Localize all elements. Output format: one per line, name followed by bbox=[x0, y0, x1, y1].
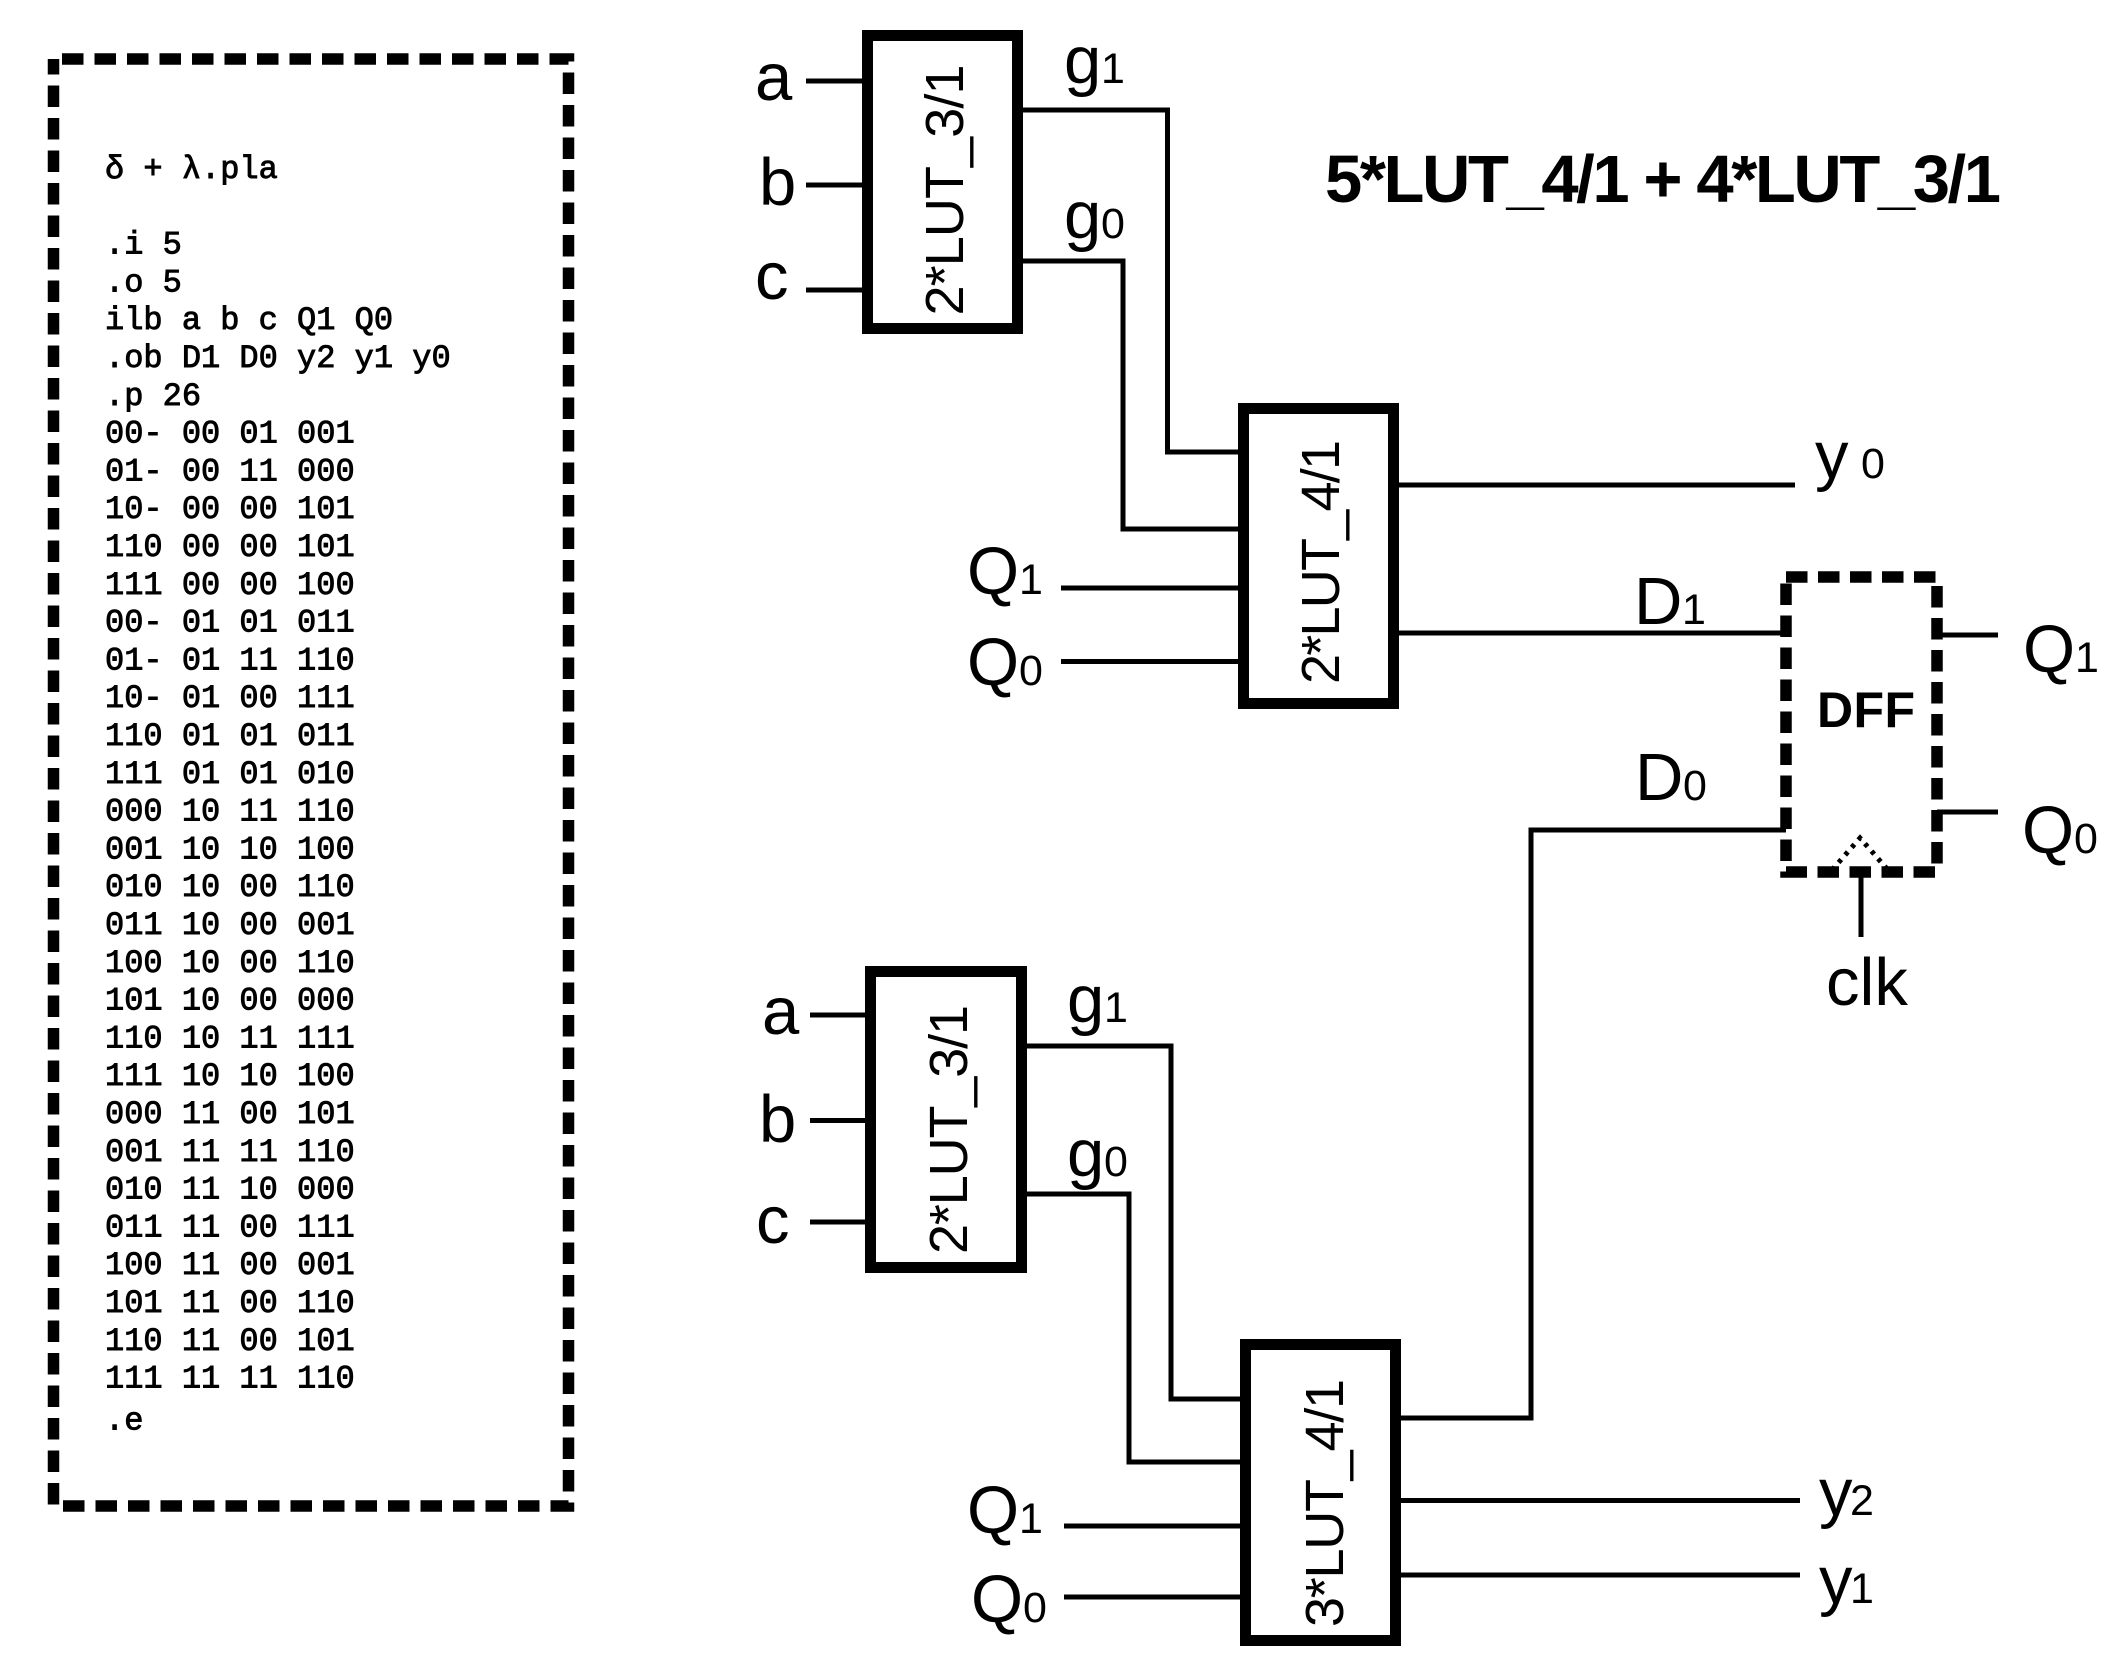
svg-text:001 10 10 100: 001 10 10 100 bbox=[105, 831, 355, 868]
svg-text:ilb a b c Q1 Q0: ilb a b c Q1 Q0 bbox=[105, 302, 393, 339]
svg-text:3*LUT_4/1: 3*LUT_4/1 bbox=[1295, 1379, 1355, 1627]
svg-text:011 11 00 111: 011 11 00 111 bbox=[105, 1209, 355, 1246]
svg-text:clk: clk bbox=[1826, 945, 1908, 1020]
svg-text:2*LUT_3/1: 2*LUT_3/1 bbox=[915, 65, 975, 316]
svg-text:111 11 11 110: 111 11 11 110 bbox=[105, 1361, 355, 1398]
svg-text:10- 00 00 101: 10- 00 00 101 bbox=[105, 491, 355, 528]
svg-text:111 00 00 100: 111 00 00 100 bbox=[105, 567, 355, 604]
svg-text:.ob D1 D0 y2 y1 y0: .ob D1 D0 y2 y1 y0 bbox=[105, 340, 451, 377]
svg-text:.o 5: .o 5 bbox=[105, 264, 182, 301]
svg-text:110 10 11 111: 110 10 11 111 bbox=[105, 1020, 355, 1057]
svg-text:111 01 01 010: 111 01 01 010 bbox=[105, 756, 355, 793]
svg-text:a: a bbox=[762, 974, 800, 1049]
svg-text:DFF: DFF bbox=[1817, 682, 1915, 738]
svg-text:01- 01 11 110: 01- 01 11 110 bbox=[105, 642, 355, 679]
svg-text:101 11 00 110: 101 11 00 110 bbox=[105, 1285, 355, 1322]
svg-text:111 10 10 100: 111 10 10 100 bbox=[105, 1058, 355, 1095]
svg-text:2*LUT_3/1: 2*LUT_3/1 bbox=[919, 1005, 979, 1254]
svg-text:010 10 00 110: 010 10 00 110 bbox=[105, 869, 355, 906]
svg-text:000 10 11 110: 000 10 11 110 bbox=[105, 794, 355, 831]
svg-text:000 11 00 101: 000 11 00 101 bbox=[105, 1096, 355, 1133]
svg-text:.p 26: .p 26 bbox=[105, 378, 201, 415]
svg-text:c: c bbox=[755, 239, 789, 314]
svg-text:100 11 00 001: 100 11 00 001 bbox=[105, 1247, 355, 1284]
svg-text:a: a bbox=[755, 40, 793, 115]
svg-text:δ + λ.pla: δ + λ.pla bbox=[105, 151, 278, 188]
svg-text:001 11 11 110: 001 11 11 110 bbox=[105, 1134, 355, 1171]
svg-text:b: b bbox=[759, 1082, 796, 1157]
svg-text:011 10 00 001: 011 10 00 001 bbox=[105, 907, 355, 944]
svg-text:010 11 10 000: 010 11 10 000 bbox=[105, 1172, 355, 1209]
svg-text:2*LUT_4/1: 2*LUT_4/1 bbox=[1291, 440, 1351, 684]
svg-text:01- 00 11 000: 01- 00 11 000 bbox=[105, 453, 355, 490]
svg-text:00- 01 01 011: 00- 01 01 011 bbox=[105, 605, 355, 642]
svg-text:10- 01 00 111: 10- 01 00 111 bbox=[105, 680, 355, 717]
svg-text:110 11 00 101: 110 11 00 101 bbox=[105, 1323, 355, 1360]
svg-text:100 10 00 110: 100 10 00 110 bbox=[105, 945, 355, 982]
svg-text:b: b bbox=[759, 145, 796, 220]
svg-text:101 10 00 000: 101 10 00 000 bbox=[105, 983, 355, 1020]
svg-text:110 00 00 101: 110 00 00 101 bbox=[105, 529, 355, 566]
svg-text:c: c bbox=[756, 1183, 790, 1258]
svg-text:5*LUT_4/1 + 4*LUT_3/1: 5*LUT_4/1 + 4*LUT_3/1 bbox=[1325, 142, 2001, 217]
svg-text:00- 00 01 001: 00- 00 01 001 bbox=[105, 416, 355, 453]
svg-text:.i 5: .i 5 bbox=[105, 227, 182, 264]
svg-text:.e: .e bbox=[105, 1402, 143, 1439]
svg-text:110 01 01 011: 110 01 01 011 bbox=[105, 718, 355, 755]
